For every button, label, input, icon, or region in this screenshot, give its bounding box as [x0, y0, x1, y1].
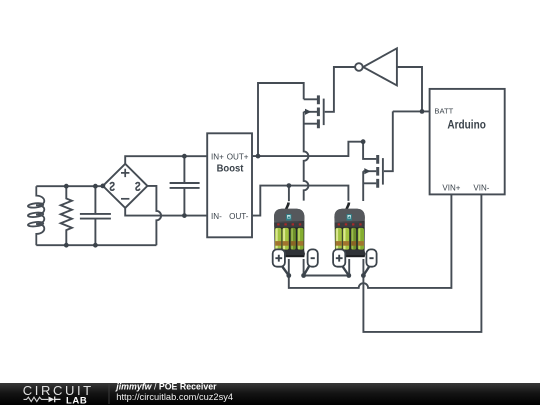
footer bar [0, 383, 540, 405]
flag label bat2 minus [366, 249, 376, 266]
flag label bat2 plus [333, 249, 345, 266]
node cap2 top [182, 154, 187, 159]
svg-text:VIN+: VIN+ [442, 183, 460, 192]
node bat2 minus [361, 273, 366, 278]
node bat2 plus [346, 273, 351, 278]
nmos M1 [304, 95, 324, 128]
wire bridge+ to IN+ rail [125, 156, 207, 164]
wire M1 drain up-over to OUT+ [258, 83, 304, 156]
resistor R1 [61, 186, 72, 245]
bridge ac mark left [110, 183, 114, 191]
svg-text:BATT: BATT [434, 106, 453, 115]
wire bottom AC rail [36, 244, 156, 246]
node bridge ac1 [101, 184, 106, 189]
wire bat2 minus drop [362, 259, 364, 276]
wire top AC rail [36, 185, 103, 187]
svg-text:LAB: LAB [66, 395, 87, 405]
svg-text:IN-: IN- [211, 212, 222, 221]
wire bat2 plus drop [348, 259, 350, 276]
leader bat2 plus [342, 266, 349, 276]
arduino U3 box [430, 89, 505, 194]
capacitor C2 [170, 156, 200, 215]
inductor L1 [28, 186, 45, 245]
footer divider [109, 384, 110, 404]
svg-text:jimmyfw / POE Receiver: jimmyfw / POE Receiver [115, 381, 217, 391]
wire OUT- jog [252, 186, 348, 216]
logo squiggle [24, 397, 49, 401]
wire M1 gate from inverter [325, 67, 355, 112]
wire M2 gate [384, 111, 393, 171]
node cap2 bottom [182, 213, 187, 218]
flag label bat1 minus [308, 249, 318, 266]
wire battery1 top [288, 186, 290, 202]
svg-text:Arduino: Arduino [447, 118, 486, 132]
svg-text:http://circuitlab.com/cuz2sy4: http://circuitlab.com/cuz2sy4 [116, 392, 233, 402]
boost converter U1 box [207, 133, 252, 237]
node resistor bottom [64, 243, 69, 248]
wire battery series link [304, 275, 349, 277]
node OUT+ [256, 154, 261, 159]
bridge rectifier D1 [103, 164, 147, 208]
svg-text:OUT-: OUT- [229, 212, 249, 221]
wire OUT+ rail [252, 142, 363, 156]
node bat1 plus [286, 273, 291, 278]
node resistor top [64, 184, 69, 189]
bridge plus mark [121, 169, 129, 177]
inverter U2 [355, 48, 397, 85]
leader bat1 minus [304, 266, 310, 276]
svg-text:OUT+: OUT+ [227, 152, 249, 161]
wire bat1 plus drop [288, 259, 290, 276]
svg-text:IN+: IN+ [211, 152, 224, 161]
flag label bat1 plus [273, 249, 285, 266]
wire BATT [393, 110, 430, 112]
bridge minus mark [121, 198, 129, 200]
wire VIN- run [363, 194, 481, 332]
wire inverter input [397, 67, 422, 111]
wire M2 drain [363, 142, 376, 159]
battery pack BT1 image [274, 203, 305, 258]
wire M2 source down [362, 171, 364, 201]
capacitor C1 [80, 186, 111, 245]
node cap1 top [93, 184, 98, 189]
svg-text:VIN-: VIN- [473, 183, 489, 192]
wire bridge- to IN- rail [125, 208, 207, 216]
node cap1 bottom [93, 243, 98, 248]
leader bat1 plus [282, 266, 289, 276]
bridge ac mark right [136, 183, 140, 191]
logo diode [49, 397, 55, 403]
wire bridge ac2 with hop [147, 186, 161, 245]
node BATT [420, 109, 425, 114]
battery pack BT2 image [334, 203, 365, 258]
leader bat2 minus [363, 266, 370, 276]
wire bat1 minus drop [303, 259, 305, 276]
wire M1 source down with hops [304, 112, 309, 201]
nmos M2 [363, 155, 383, 188]
svg-text:Boost: Boost [217, 163, 244, 175]
node OUT- bat1 [287, 183, 292, 188]
node M2 drain corner [361, 139, 366, 144]
wire VIN+ run [289, 194, 452, 288]
node bat1 minus [301, 273, 306, 278]
